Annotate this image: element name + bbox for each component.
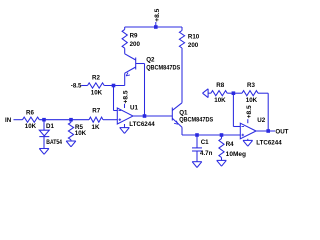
svg-text:10K: 10K [25,123,37,130]
svg-text:R9: R9 [130,33,138,40]
svg-text:R3: R3 [247,82,255,89]
wire R3 to output [258,93,268,131]
node R4 junction [220,133,224,137]
ground under R4 [217,160,227,166]
transistor Q2 QBCM847DS [125,48,181,85]
supply +8.5 flag top [154,8,161,27]
svg-text:10K: 10K [246,97,258,104]
resistor R2 [88,75,105,97]
resistor R6 [23,110,40,130]
node U1 output junction [143,114,147,118]
ground under R5 [66,141,76,147]
svg-text:R2: R2 [92,75,100,82]
svg-text:+8.5: +8.5 [246,105,253,118]
wire R8 to R3 [227,92,242,94]
node R8 R3 junction [232,91,236,95]
svg-text:200: 200 [130,41,141,48]
node feedback junction [112,84,116,88]
transistor Q1 QBCM847DS [172,103,213,135]
wire R7 to U1 plus input [103,119,117,121]
node IN label [5,117,12,124]
svg-text:Q1: Q1 [179,109,188,116]
svg-text:1K: 1K [92,124,100,131]
svg-text:LTC6244: LTC6244 [256,140,282,147]
svg-text:10K: 10K [214,97,226,104]
resistor R4 [219,135,246,160]
svg-text:U2: U2 [257,117,265,124]
resistor R10 [179,27,199,49]
resistor R5 [68,120,86,141]
node -8.5 supply label [71,83,82,90]
wire U2 output [256,130,275,132]
svg-text:10K: 10K [75,130,87,137]
supply +8.5 flag U2 [246,105,253,123]
wire top rail [125,26,182,28]
ground under D1 [39,149,49,155]
ground under C1 [192,162,202,168]
svg-text:-8.5: -8.5 [71,83,82,90]
resistor R3 [242,82,258,104]
wire R2 to Q2 emitter [104,85,125,87]
svg-text:+8.5: +8.5 [154,8,161,21]
supply +8.5 flag U1 [123,90,130,108]
wire IN to R6 [14,119,23,121]
svg-text:R7: R7 [92,108,100,115]
node C1 junction [195,133,199,137]
svg-text:R10: R10 [188,34,200,41]
ground under U1 [120,124,130,133]
wire U2 minus input [233,93,240,126]
svg-text:LTC6244: LTC6244 [129,121,155,128]
svg-text:4.7n: 4.7n [200,150,213,157]
svg-text:+8.5: +8.5 [123,90,130,103]
wire gnd to R8 [208,92,211,94]
ground under U2 [243,139,253,146]
svg-text:R8: R8 [216,82,224,89]
wire R10 to Q1 collector [181,48,183,103]
op-amp U1 [117,104,155,128]
svg-text:IN: IN [5,117,12,124]
svg-text:10K: 10K [91,89,103,96]
svg-text:OUT: OUT [275,129,288,136]
svg-text:QBCM847DS: QBCM847DS [146,65,180,72]
svg-text:200: 200 [188,42,199,49]
wire Q1 emitter rail [182,134,240,136]
svg-text:BAT54: BAT54 [46,139,62,146]
diode D1 [39,120,62,149]
op-amp U2 [240,117,282,147]
wire U1 output [133,115,172,117]
wire -8.5 to R2 [81,85,87,87]
svg-text:R4: R4 [226,141,234,148]
node U2 output junction [266,129,270,133]
resistor R8 [211,82,227,104]
svg-text:R6: R6 [26,110,34,117]
wire Q2 base [144,64,146,117]
ground left of R8 [203,89,209,98]
svg-text:C1: C1 [201,139,209,146]
capacitor C1 [192,135,213,162]
node junction R5 [69,118,73,122]
svg-text:10Meg: 10Meg [226,151,247,158]
wire feedback to U1 minus input [114,86,118,111]
resistor R7 [89,108,103,132]
resistor R9 [122,27,140,48]
svg-text:Q2: Q2 [146,56,155,63]
svg-text:QBCM847DS: QBCM847DS [179,117,213,124]
node junction D1 [42,118,46,122]
svg-text:U1: U1 [130,104,138,111]
node top supply junction [154,25,158,29]
wire R6 to R7 [39,119,89,121]
svg-text:D1: D1 [46,123,54,130]
node OUT label [275,129,288,136]
